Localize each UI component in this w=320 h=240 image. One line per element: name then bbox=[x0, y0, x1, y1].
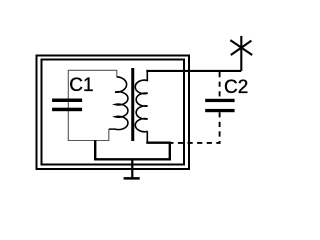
wire: bottom bus (secondary bottom, tank bottom, to ground) bbox=[95, 140, 170, 159]
ground stem bbox=[131, 159, 133, 177]
antenna lead bbox=[240, 36, 242, 71]
svg-text:C2: C2 bbox=[224, 77, 248, 98]
transformer secondary winding L2 bbox=[135, 70, 147, 143]
ground bar bbox=[124, 177, 140, 180]
transformer primary winding L1 bbox=[109, 77, 128, 130]
capacitor C1 bbox=[52, 99, 82, 103]
transformer core bbox=[131, 68, 134, 141]
dashed lead: C2 bottom to bus bbox=[171, 112, 220, 143]
svg-text:C1: C1 bbox=[69, 75, 93, 96]
dashed lead: antenna wire to C2 bbox=[219, 72, 221, 99]
outer shield box bbox=[37, 56, 190, 170]
wire: secondary top to antenna bbox=[146, 70, 241, 72]
antenna star bbox=[230, 40, 252, 55]
wire loop (C1 / primary tank, thin) bbox=[68, 70, 117, 140]
inner shield box bbox=[42, 60, 185, 165]
capacitor C2 bbox=[205, 99, 234, 102]
